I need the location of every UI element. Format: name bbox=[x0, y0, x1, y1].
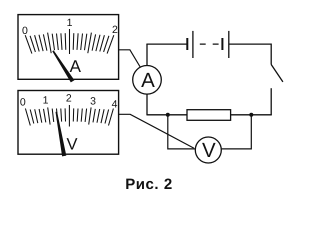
ammeter scale ticks bbox=[25, 29, 114, 54]
node right junction bbox=[249, 113, 253, 117]
voltmeter needle bbox=[56, 112, 67, 157]
battery GB1 cell1 long plate bbox=[192, 31, 194, 58]
ammeter panel box bbox=[18, 15, 119, 80]
wire from voltmeter panel to V1 bbox=[119, 114, 194, 148]
battery GB1 cell1 short plate bbox=[186, 38, 188, 50]
svg-text:2: 2 bbox=[66, 93, 72, 105]
wire from ammeter panel to ammeter A1 bbox=[119, 50, 141, 67]
svg-text:V: V bbox=[202, 139, 216, 162]
battery GB1 dashed link bbox=[200, 43, 219, 45]
bottom wire bbox=[147, 114, 272, 116]
ammeter needle bbox=[52, 50, 74, 82]
voltmeter V1 circle bbox=[195, 137, 221, 163]
wire right side down to switch bbox=[270, 44, 272, 65]
svg-text:A: A bbox=[70, 57, 82, 76]
svg-text:1: 1 bbox=[43, 95, 49, 107]
svg-text:1: 1 bbox=[67, 17, 73, 29]
switch S1 blade (open) bbox=[271, 65, 283, 82]
node left junction bbox=[166, 113, 170, 117]
svg-text:0: 0 bbox=[20, 96, 26, 108]
voltmeter scale ticks bbox=[25, 105, 113, 127]
wire battery to right corner bbox=[229, 43, 271, 45]
svg-text:V: V bbox=[66, 136, 77, 154]
svg-text:A: A bbox=[141, 69, 155, 92]
right parallel leg wire bbox=[222, 115, 252, 149]
voltmeter panel box bbox=[18, 91, 119, 155]
battery GB1 cell2 long plate bbox=[228, 31, 230, 58]
ammeter A1 circle bbox=[133, 66, 162, 95]
svg-text:0: 0 bbox=[22, 25, 28, 37]
switch S1 lower terminal wire bbox=[270, 88, 272, 115]
wire A1 to top bbox=[146, 44, 148, 65]
left parallel leg wire bbox=[168, 115, 196, 149]
svg-text:3: 3 bbox=[90, 95, 96, 107]
svg-text:2: 2 bbox=[112, 24, 118, 36]
svg-text:4: 4 bbox=[112, 99, 118, 111]
wire A1 bottom to bottom wire bbox=[146, 94, 148, 115]
svg-text:Рис. 2: Рис. 2 bbox=[125, 176, 173, 193]
resistor R1 bbox=[187, 110, 231, 121]
battery GB1 cell2 short plate bbox=[221, 38, 223, 50]
top wire to battery bbox=[146, 43, 187, 45]
